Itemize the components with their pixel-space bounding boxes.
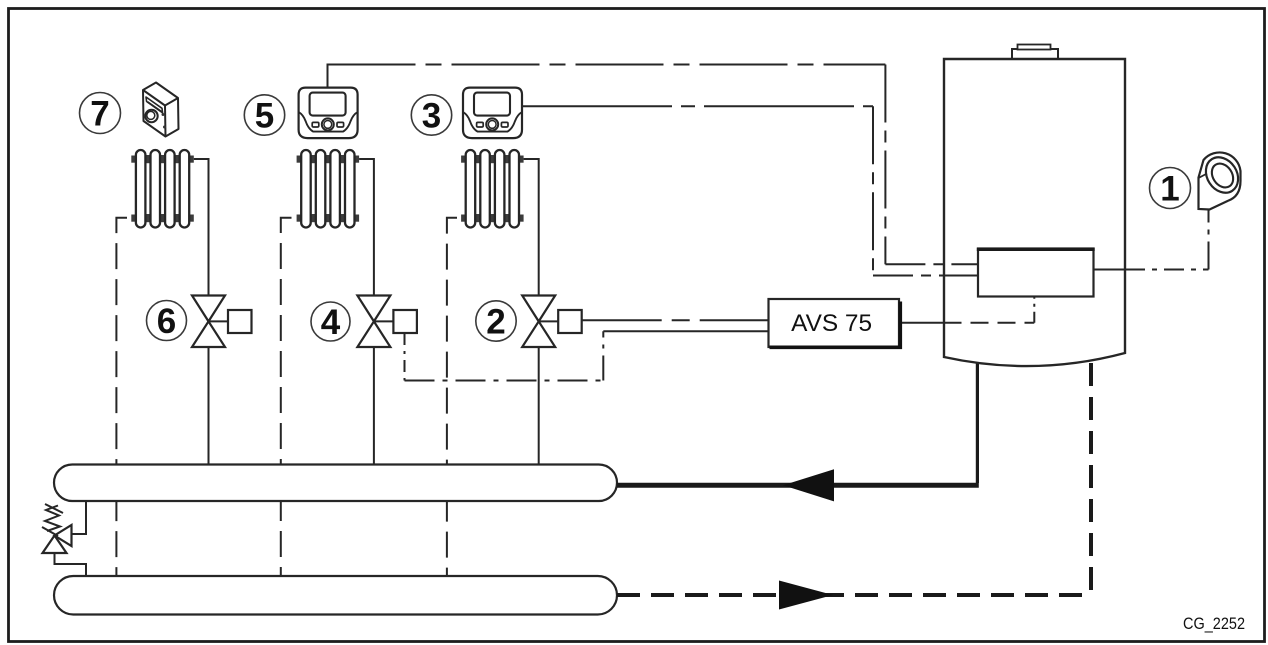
svg-text:1: 1 <box>1160 170 1179 209</box>
wire bypass bottom <box>55 553 87 576</box>
outdoor sensor 1 <box>1199 151 1245 209</box>
wire valve 2 actuator to AVS 75 (dash-dot) <box>582 319 769 321</box>
return manifold <box>54 576 617 615</box>
radiator circuit 4 <box>297 150 360 228</box>
wire supply pipe circuit 2 <box>524 159 539 465</box>
actuator circuit 4 <box>393 310 417 333</box>
wire valve 4 actuator to AVS 75 (dash-dot detour) <box>405 331 769 380</box>
mixing valve 6 <box>192 296 228 348</box>
mixing valve 4 <box>357 296 393 348</box>
svg-text:4: 4 <box>321 303 341 342</box>
wire AVS 75 to boiler <box>899 297 1034 323</box>
callout 7 <box>80 93 121 134</box>
wire return circuit 2 (dashed) <box>447 218 457 576</box>
wire return circuit 4 (dashed) <box>281 218 292 576</box>
supply manifold <box>54 465 617 502</box>
callout 5 <box>244 95 284 136</box>
svg-text:5: 5 <box>255 97 274 136</box>
svg-text:6: 6 <box>157 302 176 341</box>
boiler flue cap <box>1012 45 1058 60</box>
wire room unit 5 to boiler (dash-dot) <box>328 64 979 265</box>
wire supply pipe circuit 4 <box>359 159 374 465</box>
actuator circuit 2 <box>558 310 582 333</box>
radiator circuit 6 <box>131 150 194 228</box>
svg-text:AVS 75: AVS 75 <box>791 310 872 337</box>
module AVS 75 <box>769 299 901 347</box>
callout 6 <box>147 301 187 342</box>
callout 3 <box>411 95 451 136</box>
callout 1 <box>1150 168 1191 209</box>
radiator circuit 2 <box>461 150 524 228</box>
supply flow line with arrow <box>617 362 979 501</box>
wire supply pipe circuit 6 <box>194 159 209 465</box>
actuator circuit 6 <box>228 310 252 333</box>
svg-text:CG_2252: CG_2252 <box>1183 614 1245 633</box>
boiler <box>944 59 1125 366</box>
wire bypass top <box>72 501 87 534</box>
wire room unit 3 to boiler (dash-dot) <box>522 106 978 275</box>
room unit 5 <box>299 88 358 139</box>
bypass valve <box>42 504 72 553</box>
room thermostat 7 <box>143 83 179 137</box>
wire return circuit 6 (dashed) <box>116 218 127 576</box>
svg-text:7: 7 <box>90 95 109 134</box>
mixing valve 2 <box>522 296 558 348</box>
wire outdoor sensor to boiler (dash-dot) <box>1094 210 1209 270</box>
svg-text:3: 3 <box>422 97 441 136</box>
callout 2 <box>476 301 516 342</box>
callout 4 <box>311 302 350 342</box>
boiler control unit <box>977 249 1095 297</box>
room unit 3 <box>463 88 522 139</box>
return flow line with arrow <box>617 363 1092 610</box>
svg-text:2: 2 <box>486 303 505 342</box>
